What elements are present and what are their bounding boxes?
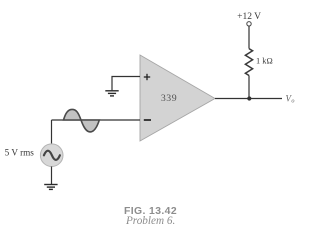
plus input marker bbox=[144, 74, 150, 80]
ground (at + input) bbox=[105, 91, 118, 96]
wire: inverting input line bbox=[52, 119, 141, 121]
svg-text:1 kΩ: 1 kΩ bbox=[256, 57, 273, 66]
node junction dot bbox=[247, 96, 251, 100]
wire: terminal to resistor bbox=[248, 26, 250, 48]
resistor R (1 kOhm) bbox=[245, 49, 252, 76]
ground (below source) bbox=[44, 185, 57, 190]
wire: output bbox=[215, 98, 282, 100]
svg-text:5 V rms: 5 V rms bbox=[5, 148, 35, 158]
wire: noninverting input to ground bbox=[112, 77, 140, 91]
wire: source to inverting line bbox=[51, 120, 53, 144]
svg-text:Problem 6.: Problem 6. bbox=[125, 215, 175, 227]
svg-text:+12 V: +12 V bbox=[237, 12, 261, 22]
ac source (5 V rms) bbox=[40, 144, 63, 167]
svg-text:339: 339 bbox=[161, 93, 177, 104]
input sine waveform symbol bbox=[64, 109, 100, 131]
sine glyph inside source bbox=[44, 151, 60, 160]
minus input marker bbox=[144, 119, 151, 121]
wire: resistor to output node bbox=[248, 76, 250, 99]
comparator U1 (339) bbox=[140, 55, 215, 141]
svg-text:o: o bbox=[291, 97, 294, 104]
wire: source to ground bbox=[51, 167, 53, 185]
